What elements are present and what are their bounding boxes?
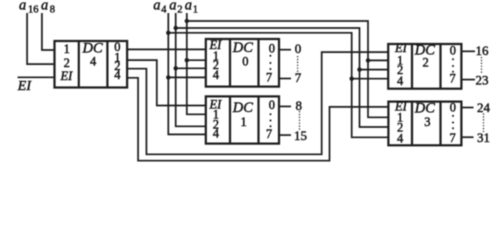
svg-text:7: 7 xyxy=(450,131,456,145)
label a4 xyxy=(153,0,167,16)
DC2 out0 stub and label 16 xyxy=(461,43,489,58)
DC0 out7 stub and label 7 xyxy=(279,70,302,85)
junction a2 to DC2 xyxy=(357,67,361,71)
decoder DC3 xyxy=(388,99,461,145)
junction a4 bus split xyxy=(166,31,170,35)
svg-text:EI: EI xyxy=(60,69,74,83)
wire a8 to DC4 pin1 xyxy=(42,13,55,50)
wire branch a1 to DC0 pin1 xyxy=(187,59,206,61)
label a2 xyxy=(169,0,182,16)
svg-text:4: 4 xyxy=(161,5,167,16)
svg-text:a: a xyxy=(153,0,160,14)
wire DC4 out1 to DC1 EI xyxy=(127,60,206,105)
junction a1 to DC2 xyxy=(366,58,370,62)
svg-text:7: 7 xyxy=(266,127,272,141)
svg-text:a: a xyxy=(185,0,192,14)
wire branch a4 to DC2 pin4 xyxy=(352,78,389,80)
svg-text:23: 23 xyxy=(476,72,489,87)
DC3 out0 stub and label 24 xyxy=(461,100,490,115)
wire a4 vertical (feeds DC0/DC1 pin4) xyxy=(168,13,206,134)
svg-text:0: 0 xyxy=(269,41,275,55)
wire a2 vertical (feeds DC0/DC1 pin2) xyxy=(176,13,206,126)
junction a4 to DC2 xyxy=(350,77,354,81)
DC0 dotted range xyxy=(297,56,299,73)
svg-text:4: 4 xyxy=(397,131,404,145)
junction a1 to DC0 xyxy=(185,58,189,62)
svg-text:0: 0 xyxy=(269,98,275,112)
svg-text:2: 2 xyxy=(177,5,182,16)
svg-text:8: 8 xyxy=(50,5,55,16)
svg-text:8: 8 xyxy=(296,98,303,113)
svg-text:7: 7 xyxy=(450,72,456,86)
svg-text:a: a xyxy=(41,0,48,14)
svg-text:2: 2 xyxy=(423,56,429,70)
label a1 xyxy=(185,0,198,16)
svg-text:3: 3 xyxy=(424,115,430,129)
DC1 out0 stub and label 8 xyxy=(279,98,302,113)
DC3 dotted range xyxy=(483,114,485,133)
svg-text:DC: DC xyxy=(232,100,253,116)
DC2 out7 stub and label 23 xyxy=(461,72,488,87)
junction a2 to DC0 xyxy=(174,66,178,70)
svg-text:15: 15 xyxy=(294,128,307,143)
wire a1 vertical (feeds DC0/DC1 pin1) xyxy=(187,13,206,114)
svg-text:0: 0 xyxy=(450,101,456,115)
svg-text:7: 7 xyxy=(266,70,272,84)
svg-text:0: 0 xyxy=(450,43,456,57)
svg-text:0: 0 xyxy=(295,41,302,56)
label a8 xyxy=(41,0,55,16)
junction a4 to DC0 xyxy=(166,75,170,79)
decoder DC4 (first stage 2-to-4) xyxy=(55,40,128,88)
svg-text:4: 4 xyxy=(213,68,220,82)
svg-text:16: 16 xyxy=(476,43,490,58)
wire DC4 out4 to DC3 EI (via bottom) xyxy=(127,78,388,161)
wire DC4 out2 to DC2 EI (via bottom) xyxy=(127,52,388,154)
DC2 dotted range xyxy=(481,57,483,74)
decoder DC2 xyxy=(388,41,461,89)
DC3 out7 stub and label 31 xyxy=(461,130,490,145)
label a16 xyxy=(19,0,39,16)
wire a2 bus to DC2/DC3 pin2 xyxy=(176,28,389,127)
decoder DC0 xyxy=(206,38,279,87)
wire branch a1 to DC2 pin1 xyxy=(368,59,388,61)
wire DC4 out0 to DC0 EI xyxy=(127,48,206,50)
svg-text:4: 4 xyxy=(397,74,404,88)
svg-text:0: 0 xyxy=(242,55,248,69)
svg-text:24: 24 xyxy=(477,100,491,115)
svg-text:31: 31 xyxy=(477,130,490,145)
svg-text:a: a xyxy=(169,0,176,14)
svg-text:2: 2 xyxy=(64,56,70,70)
svg-text:a: a xyxy=(19,0,26,14)
wire a1 top bus to DC2/DC3 pin1 xyxy=(187,21,389,117)
wire a16 to DC4 pin2 xyxy=(27,13,54,64)
svg-text:4: 4 xyxy=(213,127,220,141)
svg-text:4: 4 xyxy=(90,55,97,69)
wire a4 bus to DC2/DC3 pin4 xyxy=(168,33,388,138)
label EI (overlined) with wire to DC4 EI pin xyxy=(17,77,55,94)
DC1 out7 stub and label 15 xyxy=(279,128,307,143)
svg-text:16: 16 xyxy=(28,5,39,16)
DC0 out0 stub and label 0 xyxy=(279,41,301,56)
wire branch a4 to DC0 pin4 xyxy=(168,76,206,78)
svg-text:1: 1 xyxy=(193,5,198,16)
svg-text:EI: EI xyxy=(17,79,33,94)
decoder DC1 xyxy=(206,96,279,143)
wire branch a2 to DC2 pin2 xyxy=(360,69,389,71)
svg-text:7: 7 xyxy=(295,70,302,85)
DC1 dotted range xyxy=(299,111,301,131)
wire branch a2 to DC0 pin2 xyxy=(176,67,206,69)
svg-text:1: 1 xyxy=(64,42,70,56)
junction a1 bus split xyxy=(185,19,189,23)
svg-text:1: 1 xyxy=(241,115,247,129)
svg-text:4: 4 xyxy=(114,68,121,82)
junction a2 bus split xyxy=(174,26,178,30)
